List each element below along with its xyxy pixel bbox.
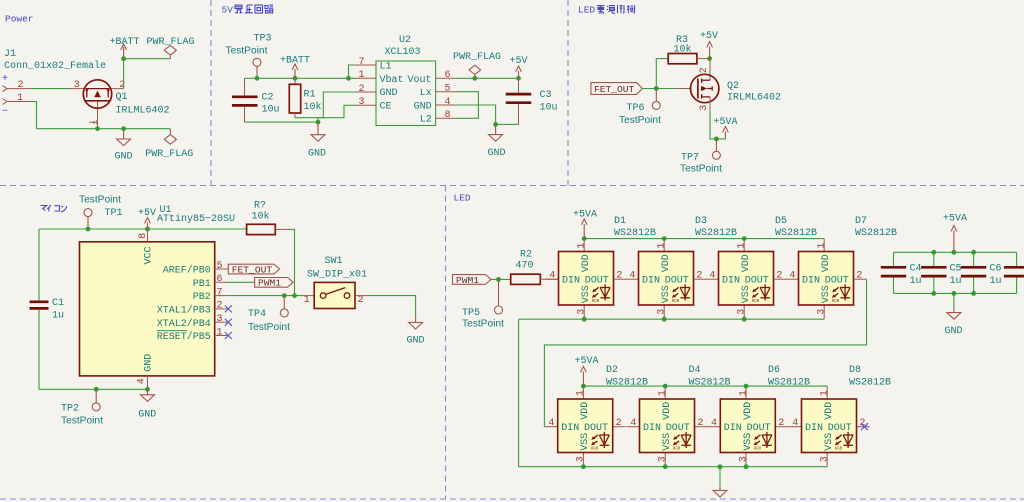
- junction TP4: [282, 293, 287, 298]
- svg-text:XTAL1/PB3: XTAL1/PB3: [157, 305, 211, 317]
- svg-text:3: 3: [217, 314, 223, 325]
- svg-text:U2: U2: [399, 35, 411, 46]
- svg-text:GND: GND: [488, 148, 506, 159]
- pin 5 AREF/PB0: [215, 261, 229, 272]
- resistor R?: [247, 200, 295, 295]
- no-connect X PB3: [225, 305, 232, 312]
- svg-text:R2: R2: [520, 250, 532, 261]
- svg-text:+: +: [2, 74, 8, 85]
- wire bottom bus: [37, 128, 171, 130]
- junction D2 VSS: [581, 464, 586, 469]
- svg-text:D8: D8: [849, 365, 861, 376]
- testpoint TP6: [619, 89, 661, 127]
- LED D8 WS2812B: [789, 365, 892, 467]
- svg-text:D4: D4: [689, 365, 701, 376]
- wire SW1 to GND: [368, 296, 416, 318]
- svg-text:L2: L2: [420, 115, 432, 126]
- wire MCU top rail: [39, 228, 247, 230]
- svg-text:5: 5: [217, 261, 223, 272]
- svg-text:C4: C4: [910, 263, 922, 274]
- svg-text:+5V: +5V: [700, 31, 718, 42]
- svg-text:FET_OUT: FET_OUT: [232, 264, 273, 275]
- LED D6 WS2812B: [707, 365, 810, 467]
- pin 5 Lx: [436, 84, 456, 95]
- svg-text:2: 2: [217, 301, 223, 312]
- svg-text:L1: L1: [380, 62, 392, 73]
- svg-text:WS2812B: WS2812B: [689, 377, 731, 388]
- svg-text:GND: GND: [144, 354, 155, 372]
- svg-text:IRLML6402: IRLML6402: [116, 106, 170, 117]
- global label FET_OUT (gate): [591, 83, 642, 95]
- svg-text:GND: GND: [138, 410, 156, 421]
- wire Vout to +5V: [456, 77, 519, 79]
- LED D5 WS2812B: [706, 216, 818, 319]
- svg-text:4: 4: [136, 378, 147, 384]
- svg-text:WS2812B: WS2812B: [695, 228, 737, 239]
- svg-text:2: 2: [359, 84, 365, 95]
- svg-text:1u: 1u: [950, 276, 962, 287]
- wire Q2 source down: [710, 109, 725, 138]
- svg-text:5V: 5V: [222, 5, 234, 16]
- section divider MCU/LED: [445, 186, 447, 500]
- pin 3 XTAL2/PB4: [215, 314, 229, 325]
- svg-text:GND: GND: [945, 326, 963, 337]
- svg-text:J1: J1: [4, 49, 16, 60]
- svg-text:10k: 10k: [304, 101, 322, 113]
- svg-text:AREF/PB0: AREF/PB0: [163, 265, 211, 277]
- junction +5V/C3: [516, 76, 521, 81]
- pin 2 XTAL1/PB3: [215, 301, 229, 312]
- svg-text:D2: D2: [606, 365, 618, 376]
- junction gnd right: [493, 122, 498, 127]
- wire PB2 to SW1: [228, 295, 302, 297]
- junction C6 bottom: [971, 291, 976, 296]
- global label PWM1 (MCU): [255, 278, 294, 289]
- capacitor bank rails: [894, 252, 1017, 293]
- wire VSS bus row2: [519, 466, 828, 468]
- ground GND (SW1): [407, 318, 425, 347]
- svg-text:2: 2: [699, 67, 710, 73]
- svg-text:TP1: TP1: [105, 208, 123, 219]
- LED D2 WS2812B: [545, 365, 648, 467]
- svg-text:PWM1: PWM1: [456, 275, 479, 286]
- capacitor C2: [232, 78, 280, 122]
- wire chain D7 to D2: [544, 279, 866, 427]
- IC U1 ATtiny85: [80, 205, 236, 376]
- svg-text:SW_DIP_x01: SW_DIP_x01: [307, 270, 367, 281]
- power +5VA (LED power section): [714, 117, 738, 139]
- testpoint TP5: [462, 279, 504, 329]
- svg-text:WS2812B: WS2812B: [606, 377, 648, 388]
- power +5V (LED power section): [700, 31, 718, 59]
- svg-text:3: 3: [699, 105, 710, 111]
- svg-text:−: −: [2, 107, 8, 118]
- svg-text:PB1: PB1: [193, 279, 211, 290]
- svg-text:TestPoint: TestPoint: [248, 322, 290, 333]
- resistor R3: [668, 35, 709, 64]
- svg-text:TP3: TP3: [254, 33, 272, 44]
- svg-text:TestPoint: TestPoint: [79, 195, 121, 206]
- capacitor C3: [506, 78, 558, 124]
- svg-text:TestPoint: TestPoint: [61, 415, 103, 426]
- svg-text:6: 6: [445, 70, 451, 81]
- svg-text:D3: D3: [695, 216, 707, 227]
- svg-text:LED: LED: [578, 5, 595, 16]
- global label FET_OUT (MCU): [228, 264, 279, 275]
- power +BATT: [110, 37, 140, 59]
- capacitor C6: [961, 252, 1002, 293]
- svg-text:6: 6: [217, 274, 223, 285]
- svg-text:+5V: +5V: [138, 208, 156, 219]
- section divider bottom: [0, 498, 1024, 500]
- section title MCU (katakana maikon): [41, 205, 67, 212]
- svg-text:7: 7: [359, 57, 365, 68]
- svg-text:10k: 10k: [674, 44, 692, 56]
- pin 7 PB2: [215, 287, 229, 298]
- pin 4 GND: [436, 97, 456, 108]
- ground GND (Power): [115, 129, 133, 163]
- wire VSS left drop: [518, 319, 520, 467]
- pin 1 RESET/PB5: [215, 327, 229, 338]
- svg-text:C5: C5: [950, 263, 962, 274]
- svg-text:SW1: SW1: [325, 256, 343, 267]
- connector J1: [2, 49, 106, 118]
- junction PWR_FLAG: [472, 76, 477, 81]
- junction +5V/drain: [707, 56, 712, 61]
- power flag PWR_FLAG (5V): [453, 52, 501, 79]
- section divider 5V/LED-power: [567, 0, 569, 186]
- svg-text:1: 1: [304, 295, 310, 306]
- svg-text:D1: D1: [614, 216, 626, 227]
- wire PWM1 to R2: [491, 278, 511, 280]
- svg-text:Q2: Q2: [727, 81, 739, 92]
- svg-text:C1: C1: [52, 298, 64, 309]
- svg-text:2: 2: [358, 295, 364, 306]
- ground GND (MCU): [138, 389, 156, 420]
- junction R1 top: [293, 76, 298, 81]
- svg-text:2: 2: [119, 80, 125, 91]
- junction D3 VSS: [662, 317, 667, 322]
- svg-text:+BATT: +BATT: [110, 37, 140, 48]
- junction D3 VDD: [662, 236, 667, 241]
- svg-text:3: 3: [74, 80, 80, 91]
- svg-text:Lx: Lx: [420, 88, 432, 99]
- svg-text:IRLML6402: IRLML6402: [727, 93, 781, 104]
- wire MCU bottom rail: [39, 388, 148, 390]
- wire PB1 to PWM1: [228, 281, 254, 283]
- svg-text:+5V: +5V: [510, 56, 528, 67]
- pin 3 CE: [356, 97, 376, 108]
- wire +BATT rail to U2 Vbat: [245, 77, 357, 79]
- svg-text:Power: Power: [5, 14, 34, 25]
- junction TP2: [94, 387, 99, 392]
- pin 8 VCC: [138, 229, 149, 242]
- svg-text:WS2812B: WS2812B: [855, 228, 897, 239]
- svg-text:R1: R1: [304, 90, 316, 101]
- junction D2 VDD: [581, 384, 586, 389]
- testpoint TP3: [226, 33, 272, 78]
- wire VDD bus row1: [584, 238, 824, 240]
- junction D1 VSS: [582, 317, 587, 322]
- resistor R1: [289, 78, 321, 117]
- no-connect X PB5: [225, 332, 232, 339]
- ground GND (5V section right): [488, 124, 506, 159]
- testpoint TP2: [61, 389, 103, 426]
- switch SW1 SW_DIP_x01: [302, 256, 368, 309]
- svg-text:D6: D6: [768, 365, 780, 376]
- svg-text:8: 8: [445, 110, 451, 121]
- junction TP7: [714, 137, 719, 142]
- section title Power: [5, 14, 34, 25]
- svg-text:1u: 1u: [910, 276, 922, 287]
- section divider Power/5V: [210, 0, 212, 186]
- svg-text:1: 1: [359, 70, 365, 81]
- wire J1 pin1 down to bottom bus: [30, 102, 37, 129]
- testpoint TP4: [248, 296, 290, 333]
- wire FET_OUT to Q2 gate: [642, 88, 676, 90]
- wire Lx to L2 loop: [456, 92, 479, 119]
- svg-text:D7: D7: [855, 216, 867, 227]
- svg-text:PWR_FLAG: PWR_FLAG: [453, 52, 501, 63]
- section title 5V boost circuit (5V&#26119;&#22311;&#22238;&#36335;): [222, 5, 274, 16]
- svg-text:3: 3: [359, 97, 365, 108]
- svg-text:PWR_FLAG: PWR_FLAG: [145, 149, 193, 160]
- ground GND (cap bank): [945, 293, 963, 337]
- svg-text:10u: 10u: [262, 105, 280, 116]
- svg-text:1: 1: [17, 93, 23, 104]
- wire gate branch up to R3: [656, 59, 668, 89]
- junction GND stem: [718, 464, 723, 469]
- svg-text:C2: C2: [262, 92, 274, 103]
- IC U2 XCL103: [376, 35, 436, 126]
- svg-text:10u: 10u: [540, 103, 558, 114]
- junction C5 top: [931, 250, 936, 255]
- wire C3 bottom to gnd: [496, 123, 519, 125]
- svg-text:Conn_01x02_Female: Conn_01x02_Female: [4, 60, 106, 72]
- junction D1 VDD: [582, 236, 587, 241]
- svg-text:7: 7: [217, 287, 223, 298]
- svg-text:4: 4: [445, 97, 451, 108]
- power +5VA row1: [573, 210, 597, 239]
- capacitor C4: [881, 252, 922, 293]
- svg-text:WS2812B: WS2812B: [614, 228, 656, 239]
- pin 7 L1: [356, 57, 376, 68]
- svg-text:8: 8: [138, 233, 149, 239]
- testpoint TP1: [79, 195, 123, 229]
- pin 6 Vout: [436, 70, 456, 81]
- capacitor C7 clipped at edge: [1004, 252, 1024, 293]
- power flag PWR_FLAG top: [147, 37, 195, 59]
- svg-text:470: 470: [516, 261, 534, 272]
- section title LED power control (LED&#38651;&#28304;&#21046;&#24481;): [578, 5, 635, 16]
- wire J1 pin2 to Q1: [30, 88, 70, 90]
- wire pin4 GND to gnd node: [456, 105, 496, 124]
- svg-text:TestPoint: TestPoint: [226, 46, 268, 57]
- svg-text:2: 2: [18, 80, 24, 91]
- wire VSS bus row1: [519, 318, 825, 320]
- svg-text:PWM1: PWM1: [258, 278, 281, 289]
- junction D6 VDD: [744, 384, 749, 389]
- svg-text:TestPoint: TestPoint: [462, 318, 504, 329]
- global label PWM1 (LED section): [453, 275, 492, 286]
- svg-text:PB2: PB2: [193, 292, 211, 303]
- svg-text:Vout: Vout: [408, 75, 432, 86]
- svg-text:C3: C3: [540, 90, 552, 101]
- junction R? bottom: [292, 293, 297, 298]
- junction C5 bottom: [931, 291, 936, 296]
- svg-text:Q1: Q1: [116, 92, 128, 103]
- svg-text:XCL103: XCL103: [385, 47, 421, 58]
- svg-text:GND: GND: [414, 101, 432, 112]
- LED D7 WS2812B: [786, 216, 898, 319]
- svg-text:TP7: TP7: [681, 152, 699, 163]
- junction GND node: [121, 126, 126, 131]
- junction VCC: [145, 227, 150, 232]
- wire VDD bus row2: [583, 385, 827, 387]
- svg-text:1: 1: [217, 327, 223, 338]
- transistor Q2: [676, 59, 781, 111]
- svg-text:Vbat: Vbat: [380, 74, 404, 86]
- svg-text:TestPoint: TestPoint: [680, 164, 722, 175]
- svg-text:+5VA: +5VA: [714, 117, 738, 128]
- LED D4 WS2812B: [627, 365, 731, 467]
- resistor R2: [511, 250, 559, 285]
- svg-text:C6: C6: [990, 263, 1002, 274]
- svg-text:5: 5: [445, 84, 451, 95]
- transistor Q1: [70, 80, 170, 129]
- svg-text:+5VA: +5VA: [575, 356, 599, 367]
- pin 6 PB1: [215, 274, 229, 285]
- capacitor C5: [921, 252, 961, 293]
- pin 1 Vbat: [356, 70, 376, 81]
- pin 8 L2: [436, 110, 456, 121]
- ground GND (5V section left): [308, 122, 326, 159]
- junction L1 branch: [346, 76, 351, 81]
- svg-text:TP2: TP2: [61, 404, 79, 415]
- junction C6 top: [971, 250, 976, 255]
- wire GND/CE lower links: [245, 92, 357, 122]
- testpoint TP7: [680, 139, 722, 175]
- ground GND (LED rows): [713, 467, 727, 497]
- svg-text:GND: GND: [407, 335, 425, 346]
- LED D1 WS2812B: [546, 216, 657, 319]
- svg-text:+5VA: +5VA: [573, 210, 597, 221]
- junction +BATT node: [121, 56, 126, 61]
- junction TP6/R3: [654, 86, 659, 91]
- power +BATT (5V section): [280, 55, 310, 78]
- svg-text:GND: GND: [380, 88, 398, 99]
- power flag PWR_FLAG bottom: [145, 129, 193, 161]
- junction TP5: [496, 277, 501, 282]
- wire Q1 drain up to +BATT: [124, 59, 171, 89]
- svg-text:LED: LED: [454, 193, 471, 204]
- junction D6 VSS: [744, 464, 749, 469]
- junction D4 VSS: [663, 464, 668, 469]
- svg-text:TP6: TP6: [627, 103, 645, 114]
- junction Q1 gate on bus: [95, 126, 100, 131]
- svg-text:ATtiny85−20SU: ATtiny85−20SU: [157, 213, 235, 225]
- junction TP3: [255, 76, 260, 81]
- svg-text:GND: GND: [308, 149, 326, 160]
- junction +5VA top: [952, 250, 957, 255]
- junction GND bus: [316, 120, 321, 125]
- section title LED: [454, 193, 471, 204]
- section divider horizontal mid: [0, 185, 1024, 187]
- power +5V (MCU): [138, 208, 156, 229]
- svg-text:10k: 10k: [252, 211, 270, 223]
- svg-text:TP4: TP4: [248, 309, 266, 320]
- svg-text:R?: R?: [254, 200, 266, 211]
- power +5VA row2: [575, 356, 599, 386]
- svg-text:WS2812B: WS2812B: [768, 377, 810, 388]
- power +5VA cap bank: [943, 214, 967, 253]
- svg-text:WS2812B: WS2812B: [849, 377, 891, 388]
- junction GND cap bank: [952, 291, 957, 296]
- pin 2 GND: [356, 84, 376, 95]
- pin 4 GND: [136, 376, 147, 389]
- svg-text:FET_OUT: FET_OUT: [594, 84, 635, 95]
- svg-text:WS2812B: WS2812B: [775, 228, 817, 239]
- wire L1 loop to Vbat: [349, 65, 357, 78]
- svg-text:CE: CE: [380, 101, 392, 112]
- svg-text:TestPoint: TestPoint: [619, 115, 661, 126]
- junction D4 VDD: [663, 384, 668, 389]
- capacitor C1: [30, 229, 65, 389]
- junction GND pin: [145, 387, 150, 392]
- svg-text:RESET/PB5: RESET/PB5: [157, 331, 211, 343]
- svg-text:XTAL2/PB4: XTAL2/PB4: [157, 318, 211, 330]
- LED D3 WS2812B: [626, 216, 738, 319]
- svg-text:1u: 1u: [990, 276, 1002, 287]
- junction TP1: [86, 227, 91, 232]
- svg-text:VCC: VCC: [144, 246, 155, 264]
- svg-text:GND: GND: [115, 151, 133, 162]
- svg-text:+5VA: +5VA: [943, 214, 967, 225]
- svg-text:TP5: TP5: [462, 308, 480, 319]
- svg-text:+BATT: +BATT: [280, 55, 310, 66]
- junction D5 VSS: [742, 317, 747, 322]
- junction D5 VDD: [742, 236, 747, 241]
- power +5V (5V section): [510, 56, 528, 79]
- svg-text:PWR_FLAG: PWR_FLAG: [147, 37, 195, 48]
- no-connect X D8 DOUT: [861, 423, 868, 430]
- svg-text:D5: D5: [775, 216, 787, 227]
- svg-text:1u: 1u: [52, 310, 64, 321]
- no-connect X PB4: [225, 319, 232, 326]
